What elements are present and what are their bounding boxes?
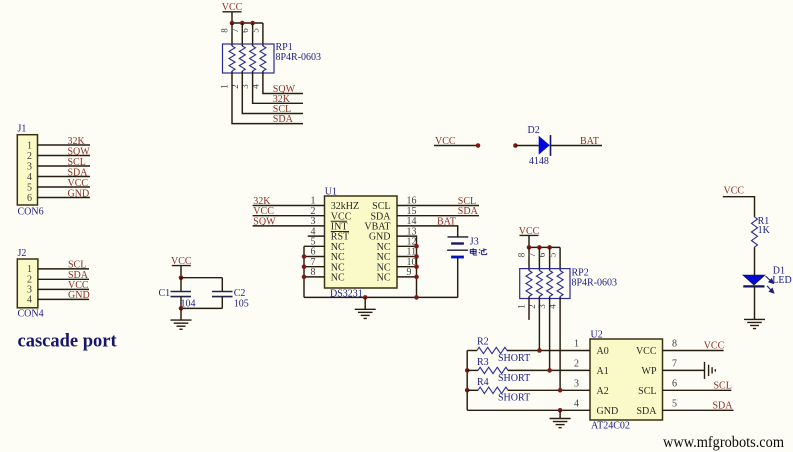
svg-text:NC: NC — [331, 273, 345, 284]
resistor R2 — [477, 347, 507, 353]
wire U1 pin 2 — [253, 215, 325, 217]
power VCC (C1/C2) — [171, 256, 192, 267]
resistor RP2 element 1 — [526, 271, 532, 297]
wire U2 pin 5 (SDA) — [663, 409, 734, 411]
svg-text:5: 5 — [548, 252, 558, 257]
svg-text:J2: J2 — [18, 248, 27, 259]
wire VCC stub to RP1 — [231, 12, 233, 23]
wire RP2 pin 8 lead — [528, 247, 530, 270]
svg-text:SCL: SCL — [638, 386, 656, 397]
resistor pack RP1 body — [223, 44, 275, 73]
junction right NC bus / ground net — [414, 295, 419, 300]
wire U1 pin 4 stub (RST) — [308, 235, 325, 237]
svg-text:CON4: CON4 — [18, 309, 44, 320]
svg-text:SCL: SCL — [68, 260, 86, 271]
resistor R4 — [478, 387, 508, 393]
wire U2 pin 6 (SCL) — [663, 389, 732, 391]
svg-text:8: 8 — [672, 339, 677, 350]
wire RP2 pin 5 lead — [559, 247, 561, 270]
node D2 anode wire start — [513, 143, 518, 148]
junction U1 pin 9 — [414, 275, 419, 280]
svg-text:SHORT: SHORT — [498, 393, 530, 404]
junction U1 pin 8 — [302, 275, 307, 280]
wire U1 pin 5 stub (NC) — [304, 245, 325, 247]
svg-text:6: 6 — [672, 378, 677, 389]
wire VCC to R1 — [723, 197, 755, 217]
resistor RP1 element 2 — [239, 46, 245, 71]
svg-text:AT24C02: AT24C02 — [591, 421, 630, 432]
svg-text:A2: A2 — [597, 386, 609, 397]
svg-text:SQW: SQW — [253, 216, 276, 227]
ground (C1/C2) — [171, 320, 192, 329]
wire D1 to ground — [754, 286, 756, 319]
ground (U2) — [550, 419, 571, 428]
wire to ground U2 — [559, 410, 561, 418]
svg-text:J1: J1 — [18, 124, 27, 135]
svg-text:www.mfgrobots.com: www.mfgrobots.com — [663, 434, 784, 451]
wire U1 pin 14 (VBAT) to battery — [397, 226, 458, 237]
IC U2 body (AT24C02) — [590, 339, 663, 420]
svg-text:1K: 1K — [758, 225, 771, 236]
ground (WP, rotated) — [705, 362, 716, 379]
wire J1 pin 6 — [38, 197, 91, 199]
svg-text:32K: 32K — [68, 136, 86, 147]
junction GND / ground tap — [558, 408, 563, 413]
junction RP2 pin3 / A1 — [547, 368, 552, 373]
wire to R2 — [467, 350, 477, 352]
wire J2 pin 1 — [38, 268, 89, 270]
svg-text:6: 6 — [27, 193, 32, 204]
wire C2 top lead — [221, 278, 223, 292]
svg-text:4: 4 — [27, 172, 32, 183]
junction VCC/C1/C2 top — [179, 275, 184, 280]
svg-text:SHORT: SHORT — [498, 353, 530, 364]
junction U1 pin 10 — [414, 264, 419, 269]
junction U1 pin 6 — [302, 254, 307, 259]
wire RP1 top bus — [232, 22, 263, 24]
power VCC (RP1) — [222, 2, 243, 13]
svg-text:SDA: SDA — [458, 206, 479, 217]
svg-text:SHORT: SHORT — [498, 373, 530, 384]
wire C2 bottom to C1 bottom — [181, 307, 222, 309]
LED D1 body — [743, 275, 764, 285]
junction RP1 pin 6 — [250, 21, 255, 26]
battery J3 plate 3 — [447, 249, 468, 251]
wire U1 pin 10 stub (NC) — [397, 266, 417, 268]
J3 value 电池 (battery) — [470, 248, 486, 255]
wire RP1 pin 6 lead — [252, 23, 254, 46]
wire to R4 — [467, 389, 478, 391]
wire U1 pin 8 stub (NC) — [304, 276, 325, 278]
wire RP2 pin 1 stub — [528, 297, 530, 320]
battery J3 plate 2 — [451, 242, 464, 244]
wire U1 pin 12 stub (NC) — [397, 245, 417, 247]
wire RP2 pin 2 to A0 net — [538, 297, 540, 351]
resistor RP2 element 3 — [547, 271, 553, 297]
svg-text:6: 6 — [240, 28, 250, 33]
resistor pack RP2 body — [520, 269, 570, 299]
svg-text:3: 3 — [27, 161, 32, 172]
svg-text:VCC: VCC — [636, 346, 657, 357]
resistor R1 — [752, 217, 758, 247]
wire D2 cathode to BAT — [551, 145, 603, 147]
battery J3 plate 1 — [448, 236, 469, 238]
svg-text:3: 3 — [574, 378, 579, 389]
wire battery J3 negative lead — [457, 257, 459, 297]
svg-text:SQW: SQW — [68, 146, 91, 157]
svg-text:7: 7 — [672, 358, 677, 369]
svg-text:1: 1 — [27, 264, 32, 275]
wire C1 bottom lead — [180, 297, 182, 309]
connector J1 body — [17, 135, 37, 205]
svg-text:2: 2 — [27, 151, 32, 162]
battery J3 plate 4 — [451, 256, 464, 259]
wire U2 pin 4 (GND) — [467, 409, 590, 411]
svg-text:4: 4 — [574, 398, 579, 409]
wire RP1 pin 3 to 32K — [253, 71, 303, 103]
svg-text:R2: R2 — [477, 336, 489, 347]
svg-text:2: 2 — [574, 358, 579, 369]
wire RP1 pin 2 to SCL — [242, 71, 303, 114]
wire J2 pin 4 — [38, 298, 89, 300]
svg-text:7: 7 — [527, 252, 537, 257]
svg-text:VCC: VCC — [704, 341, 725, 352]
svg-text:C2: C2 — [234, 288, 246, 299]
svg-text:5: 5 — [672, 398, 677, 409]
junction RP2 pin4 / A2 — [558, 388, 563, 393]
svg-text:6: 6 — [537, 252, 547, 257]
wire J1 pin 4 — [38, 176, 91, 178]
wire RP1 pin 7 lead — [241, 23, 243, 46]
wire C1 to ground — [180, 308, 182, 320]
junction U1 pin 7 — [302, 264, 307, 269]
svg-text:GND: GND — [597, 406, 619, 417]
wire J1 pin 5 — [38, 186, 91, 188]
wire RP2 pin 6 lead — [549, 247, 551, 270]
wire J1 pin 1 — [38, 144, 91, 146]
wire U1 pin 1 — [253, 205, 325, 207]
junction RP1 pin 8 — [230, 21, 235, 26]
junction RP2 pin 6 — [547, 245, 552, 250]
svg-text:WP: WP — [642, 366, 657, 377]
wire U1 left NC bus — [303, 246, 305, 297]
wire VCC stub (D2) — [434, 145, 478, 147]
svg-text:cascade port: cascade port — [18, 332, 118, 352]
junction RP2 pin2 / A0 — [537, 348, 542, 353]
svg-text:VCC: VCC — [724, 186, 745, 197]
wire U1 pin 16 (SCL) — [397, 205, 479, 207]
ground (U1) — [355, 309, 376, 318]
wire C1 top lead — [180, 278, 182, 292]
junction RP1 pin 7 — [240, 21, 245, 26]
wire U2 left bus — [466, 351, 468, 411]
node VCC wire end — [476, 143, 481, 148]
junction left bus / R4 — [465, 388, 470, 393]
wire RP2 pin 3 to A1 net — [549, 297, 551, 371]
svg-text:105: 105 — [234, 299, 249, 310]
svg-text:8: 8 — [220, 28, 230, 33]
wire RP2 top bus — [529, 246, 560, 248]
wire RP2 pin 7 lead — [538, 247, 540, 270]
svg-text:R3: R3 — [477, 357, 489, 368]
wire C2 bottom lead — [221, 297, 223, 309]
wire U1 pin 3 — [253, 225, 325, 227]
svg-text:D2: D2 — [528, 125, 540, 136]
wire U1 pin 15 (SDA) — [397, 215, 479, 217]
svg-text:SDA: SDA — [68, 167, 89, 178]
junction U1 pin 11 — [414, 254, 419, 259]
svg-text:8: 8 — [517, 252, 527, 257]
wire U1 pin 13 / right NC bus — [397, 236, 417, 297]
diode D2 cathode bar — [550, 135, 552, 156]
diode D2 body — [539, 136, 550, 155]
wire R2 to U2 pin 1 (A0) — [507, 350, 590, 352]
wire U2 pin 8 (VCC) — [663, 350, 724, 352]
svg-text:GND: GND — [68, 290, 90, 301]
resistor RP2 element 2 — [536, 271, 542, 297]
svg-text:5: 5 — [250, 28, 260, 33]
wire R3 to U2 pin 2 (A1) — [508, 369, 590, 371]
svg-text:VCC: VCC — [68, 178, 89, 189]
wire J1 pin 3 — [38, 165, 91, 167]
ground (D1) — [744, 319, 765, 328]
wire U1 pin 11 stub (NC) — [397, 256, 417, 258]
resistor R3 — [478, 367, 508, 373]
wire U1 pin 9 stub (NC) — [397, 276, 417, 278]
svg-text:5: 5 — [27, 182, 32, 193]
junction left bus / R3 — [465, 368, 470, 373]
wire J2 pin 3 — [38, 288, 89, 290]
resistor RP2 element 4 — [557, 271, 563, 297]
svg-text:3: 3 — [537, 304, 547, 309]
resistor RP1 element 3 — [250, 46, 256, 71]
wire R4 to U2 pin 3 (A2) — [508, 389, 590, 391]
wire to R3 — [467, 369, 478, 371]
svg-text:1: 1 — [27, 140, 32, 151]
wire VCC stub to C1 — [180, 266, 182, 278]
junction C1 bottom / ground — [179, 306, 184, 311]
LED D1 emission arrows — [766, 276, 774, 293]
capacitor C1 — [171, 292, 192, 297]
svg-text:1: 1 — [574, 339, 579, 350]
svg-text:1: 1 — [220, 84, 230, 89]
wire RP2 pin 4 to A2 net — [559, 297, 561, 391]
svg-text:4148: 4148 — [529, 156, 549, 167]
wire U1 pin 7 stub (NC) — [304, 266, 325, 268]
wire U2 pin 7 (WP) to ground — [663, 369, 705, 371]
svg-text:SDA: SDA — [713, 400, 734, 411]
svg-text:BAT: BAT — [580, 136, 599, 147]
svg-text:BAT: BAT — [437, 216, 456, 227]
wire to D2 anode — [515, 145, 538, 147]
svg-text:A1: A1 — [597, 366, 609, 377]
wire to ground U1 — [364, 297, 366, 309]
svg-text:LED: LED — [772, 275, 791, 286]
IC U1 body (DS3231) — [325, 196, 398, 288]
junction RP2 pin 7 — [537, 245, 542, 250]
svg-text:GND: GND — [68, 188, 90, 199]
svg-text:SCL: SCL — [68, 157, 86, 168]
svg-text:SDA: SDA — [273, 114, 294, 125]
wire R1 to D1 — [754, 247, 756, 275]
svg-text:C1: C1 — [159, 288, 171, 299]
capacitor C2 — [212, 292, 233, 297]
wire J1 pin 2 — [38, 155, 91, 157]
connector J2 body — [17, 259, 38, 308]
svg-text:NC: NC — [377, 273, 391, 284]
wire VCC stub to RP2 — [528, 235, 530, 247]
wire C1 top to C2 top — [181, 277, 222, 279]
wire RP1 pin 8 lead — [231, 23, 233, 46]
svg-text:J3: J3 — [470, 237, 479, 248]
svg-text:8P4R-0603: 8P4R-0603 — [572, 277, 618, 288]
wire RP1 pin 4 to SQW — [263, 71, 303, 94]
svg-text:SCL: SCL — [714, 380, 732, 391]
LED D1 cathode bar — [743, 285, 764, 287]
wire RP1 pin 5 lead — [262, 23, 264, 46]
svg-text:7: 7 — [230, 28, 240, 33]
svg-text:A0: A0 — [597, 346, 609, 357]
svg-text:8P4R-0603: 8P4R-0603 — [276, 52, 322, 63]
svg-text:1: 1 — [517, 304, 527, 309]
svg-text:SDA: SDA — [636, 406, 657, 417]
svg-text:CON6: CON6 — [18, 207, 44, 218]
wire U1 bottom ground net — [304, 296, 458, 298]
resistor RP1 element 1 — [229, 46, 235, 71]
svg-text:R4: R4 — [477, 377, 489, 388]
svg-text:4: 4 — [27, 295, 32, 306]
junction RP2 pin 8 — [527, 245, 532, 250]
wire J2 pin 2 — [38, 278, 89, 280]
power VCC (RP2) — [519, 226, 540, 237]
junction U1 pin 12 — [414, 244, 419, 249]
wire RP1 pin 1 to SDA — [232, 71, 303, 124]
wire U1 pin 6 stub (NC) — [304, 256, 325, 258]
resistor RP1 element 4 — [260, 46, 266, 71]
junction ground tap U1 — [363, 295, 368, 300]
